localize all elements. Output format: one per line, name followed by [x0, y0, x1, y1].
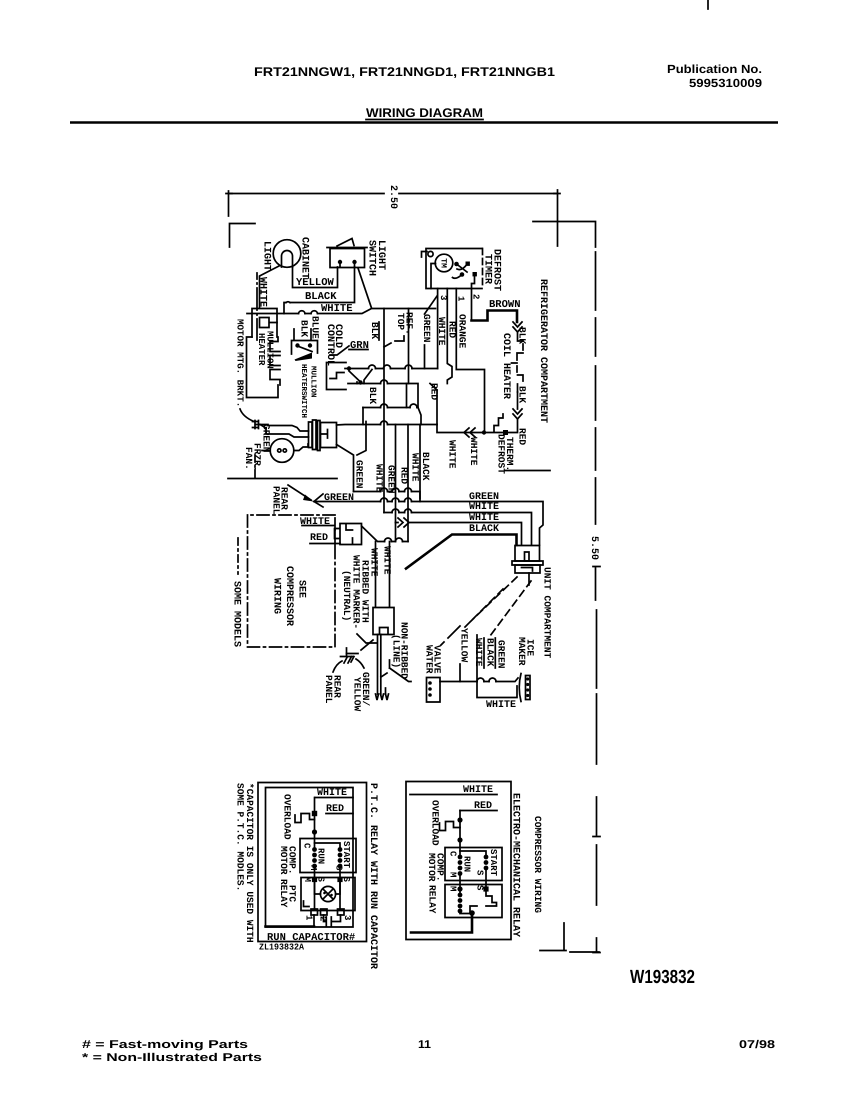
svg-text:RELAY: RELAY [427, 885, 438, 914]
svg-text:ELECTRO-MECHANICAL RELAY: ELECTRO-MECHANICAL RELAY [510, 793, 521, 937]
mullion heater top box inner [260, 318, 278, 328]
main lead [459, 811, 461, 857]
white bus bumps [299, 311, 318, 314]
wire fan to plug upper [260, 425, 309, 438]
bumps on 491.5 [381, 488, 412, 492]
rear panel leader arrow [288, 485, 311, 500]
svg-text:SOME P.T.C. MODLES.: SOME P.T.C. MODLES. [235, 783, 246, 891]
svg-text:WHITE: WHITE [486, 700, 516, 711]
svg-text:MAKER: MAKER [516, 637, 527, 666]
svg-text:S: S [316, 877, 326, 883]
svg-text:RED: RED [447, 321, 458, 338]
main lead [314, 798, 316, 850]
timer contact blades [453, 264, 468, 279]
L corner mark [304, 901, 310, 907]
bumps on 682 [477, 678, 496, 682]
svg-text:CABINET: CABINET [299, 237, 310, 279]
svg-text:* = Non-Illustrated Parts: * = Non-Illustrated Parts [82, 1052, 262, 1064]
svg-text:YELLOW: YELLOW [296, 277, 335, 289]
trunk vertical 406 lower [406, 384, 408, 408]
brown wire [472, 311, 518, 323]
green wire from timer pin3 [425, 296, 438, 369]
ground symbol [341, 648, 355, 663]
blk trunk wire [383, 309, 385, 513]
coil heater dashed element [512, 332, 524, 392]
cabinet light bulb [273, 240, 301, 268]
dimension 5.50 bottom corner [540, 923, 600, 953]
refrigerator compartment corner top-left [230, 224, 256, 248]
wire bulb left lead [260, 266, 280, 308]
svg-text:S: S [334, 865, 344, 871]
svg-text:ZL193832A: ZL193832A [259, 943, 305, 953]
svg-text:GREEN: GREEN [496, 640, 507, 669]
grn leader [330, 346, 368, 355]
mullion heater top box [252, 309, 277, 338]
stubs into connector [363, 390, 437, 425]
mullion heater element meander [247, 337, 281, 398]
svg-text:(LINE): (LINE) [391, 634, 402, 668]
mullion heater switch arm [295, 353, 313, 362]
terminal chevrons on brown wire [513, 322, 522, 332]
svg-text:BLK: BLK [367, 387, 378, 404]
svg-text:SWITCH: SWITCH [299, 391, 308, 418]
svg-text:FAN.: FAN. [243, 447, 254, 470]
dimension 2.50 left end [226, 191, 232, 216]
svg-text:TM: TM [439, 258, 448, 268]
compartment divider line right [505, 470, 550, 472]
bumps on 407 bus [381, 404, 418, 408]
vertical white drop [477, 635, 517, 698]
svg-text:Publication No.: Publication No. [667, 62, 762, 76]
svg-text:GREEN: GREEN [354, 460, 365, 489]
red wire [326, 813, 353, 815]
svg-text:(NEUTRAL): (NEUTRAL) [341, 570, 352, 621]
wire stubs into heater switch [294, 329, 311, 340]
ptc relay box [301, 878, 355, 911]
relay box [445, 885, 502, 918]
svg-text:SOME MODELS: SOME MODELS [231, 581, 242, 647]
white wire [410, 794, 497, 796]
dash on line wire [381, 673, 387, 677]
bumps on 541.5 [385, 538, 403, 542]
zigzag drop from 368 bus [364, 370, 372, 384]
svg-text:07/98: 07/98 [739, 1039, 775, 1051]
svg-text:WHITE: WHITE [468, 437, 479, 466]
svg-text:YELLOW: YELLOW [352, 677, 363, 712]
svg-text:M: M [308, 865, 318, 870]
svg-text:WHITE: WHITE [473, 638, 484, 667]
svg-text:MOTOR MTG. BRKT.: MOTOR MTG. BRKT. [235, 319, 246, 407]
svg-text:GREEN: GREEN [421, 314, 432, 343]
svg-text:MULLION: MULLION [309, 366, 318, 398]
svg-text:# = Fast-moving Parts: # = Fast-moving Parts [82, 1039, 248, 1051]
svg-text:BROWN: BROWN [489, 299, 521, 311]
svg-text:WHITE: WHITE [257, 277, 268, 307]
trunk 407 bus [363, 407, 418, 409]
green bus wire [314, 502, 543, 546]
freezer fan motor circle [270, 439, 294, 463]
inner box [266, 788, 354, 928]
svg-text:C: C [448, 851, 458, 857]
left border dash-dot marks [256, 273, 258, 340]
header rule [70, 121, 778, 124]
comp motor box [300, 839, 356, 873]
svg-text:WIRING DIAGRAM: WIRING DIAGRAM [366, 106, 483, 120]
relay coil dots [458, 893, 463, 898]
svg-text:WHITE: WHITE [382, 546, 393, 575]
svg-text:RED: RED [517, 428, 528, 445]
timer wire from TM down [431, 264, 436, 289]
white wire [315, 797, 353, 799]
svg-text:M: M [448, 886, 458, 891]
power cord block [373, 608, 394, 635]
svg-text:M: M [448, 872, 458, 877]
svg-text:S: S [475, 870, 485, 876]
start top wire [460, 851, 486, 855]
svg-text:BLACK: BLACK [305, 291, 337, 303]
svg-text:FRT21NNGW1, FRT21NNGD1, FRT21N: FRT21NNGW1, FRT21NNGD1, FRT21NNGB1 [254, 65, 555, 79]
title underline [366, 119, 483, 121]
connector plug inner tick [322, 430, 328, 439]
dashed leads to ice maker [465, 577, 531, 636]
chevrons lower [513, 409, 522, 419]
winding leads to ptc box [315, 866, 341, 910]
wire plug lower fanout [337, 445, 354, 492]
svg-text:WHITE: WHITE [447, 440, 458, 469]
S contact step [460, 891, 497, 914]
wire white trunk from timer [447, 289, 452, 384]
wire green label to fan [262, 444, 308, 451]
svg-text:2: 2 [471, 294, 481, 299]
bumps on green bus [381, 498, 412, 502]
compressor white wire [302, 525, 334, 527]
wire heater to defrost therm bus [437, 392, 518, 433]
svg-text:BLACK: BLACK [485, 638, 496, 667]
light switch lever [327, 239, 367, 248]
svg-text:S: S [475, 885, 485, 891]
overload [440, 822, 461, 831]
marker leader [357, 634, 377, 643]
leads to relay box [460, 868, 486, 893]
svg-text:COMPRESSOR WIRING: COMPRESSOR WIRING [532, 816, 543, 913]
power cord double line [378, 635, 381, 695]
defrost therm junction dots [482, 430, 486, 434]
wire black: switch to bus [284, 267, 355, 314]
svg-text:1: 1 [304, 915, 314, 921]
defrost timer motor TM [435, 254, 453, 272]
svg-text:WHITE: WHITE [469, 502, 499, 513]
svg-text:S: S [341, 877, 351, 883]
start top wire [315, 843, 341, 847]
svg-text:ORANGE: ORANGE [457, 314, 468, 349]
svg-text:THERM.: THERM. [504, 437, 515, 471]
svg-text:HEATER: HEATER [256, 333, 266, 366]
connector plug right body [321, 423, 337, 448]
svg-text:COIL HEATER: COIL HEATER [500, 333, 511, 399]
wire orange trunk [437, 289, 439, 369]
refrigerator compartment corner top-right [533, 222, 596, 248]
white2 bus chevrons [398, 518, 409, 527]
svg-text:RUN: RUN [462, 856, 472, 872]
mullion heater switch box [292, 341, 318, 355]
connector plug body left bar [309, 422, 313, 448]
fan inline connector [253, 421, 261, 429]
white1 bus wire [384, 513, 532, 546]
wire cold control bottom bus [348, 384, 437, 425]
dimension 5.50 vertical line [595, 252, 597, 524]
thick bottom wire [411, 913, 472, 933]
svg-text:OVERLOAD: OVERLOAD [430, 800, 441, 846]
run winding [458, 855, 463, 860]
wire: light switch diagonal to trunk [358, 268, 372, 308]
timer pin2 wire [472, 276, 475, 321]
svg-text:SWITCH: SWITCH [366, 240, 377, 276]
svg-text:5995310009: 5995310009 [689, 76, 762, 90]
svg-text:TOP: TOP [395, 313, 406, 330]
dash-dot boundary bits [441, 626, 460, 645]
fan motor dots [278, 449, 281, 452]
trunk vertical 408 upper [408, 309, 410, 384]
page registration tick top [707, 0, 709, 9]
compartment divider line left [228, 478, 337, 480]
comp motor box [445, 848, 502, 881]
svg-text:RELAY: RELAY [278, 879, 289, 908]
white2 bus wire [396, 523, 522, 546]
run winding dots [312, 847, 317, 852]
svg-text:LIGHT: LIGHT [261, 241, 272, 271]
cold control contacts [347, 366, 351, 370]
svg-text:3: 3 [342, 915, 352, 920]
svg-text:BLK: BLK [299, 320, 310, 337]
chevrons on therm bus [464, 428, 475, 437]
cord prongs [376, 694, 389, 700]
svg-text:P.T.C. RELAY WITH RUN CAPACITO: P.T.C. RELAY WITH RUN CAPACITOR [367, 783, 378, 969]
neutral riser wires [376, 542, 390, 608]
outer box [258, 783, 367, 942]
pins below [311, 909, 318, 915]
line wire diagonal to water valve [390, 660, 412, 682]
wire yellow: bulb to switch [293, 267, 338, 288]
svg-text:2.50: 2.50 [387, 185, 398, 209]
svg-text:C: C [302, 843, 312, 849]
some models dashed sample [237, 538, 239, 574]
bump on 383 bus [381, 380, 388, 384]
water valve body [427, 678, 441, 703]
wire cold control to red bus [345, 368, 438, 370]
ground to cord wire [347, 640, 374, 654]
svg-text:REFRIGERATOR COMPARTMENT: REFRIGERATOR COMPARTMENT [537, 279, 548, 423]
svg-text:RUN: RUN [316, 848, 326, 864]
black wire bump over bulb lead [286, 301, 290, 304]
cabinet light filament [282, 251, 293, 268]
light switch terminals [338, 260, 342, 264]
dimension 5.50 small ticks [593, 567, 600, 837]
svg-text:PANEL: PANEL [271, 486, 282, 515]
svg-text:BLACK: BLACK [420, 452, 431, 481]
mullion heater switch contacts [295, 343, 299, 347]
defrost timer pivot [428, 251, 433, 256]
defrost timer contacts [454, 262, 459, 267]
green bus arrowhead outline [314, 494, 323, 507]
green feeder line 491.5 [354, 492, 421, 502]
svg-text:MOTOR: MOTOR [426, 853, 437, 882]
red wire [460, 810, 497, 812]
svg-text:11: 11 [418, 1039, 431, 1051]
yellow leader wire [459, 664, 461, 682]
ptc internal wires [315, 880, 341, 895]
dimension 2.50 line [229, 193, 556, 195]
outer box [406, 782, 511, 940]
compressor connector plug [335, 524, 362, 545]
trunk vertical 366 [357, 422, 366, 456]
see compressor wiring dashed box [248, 515, 336, 647]
connector plug tall bars [313, 420, 321, 451]
wire red trunk from pin 1 [456, 289, 484, 433]
svg-text:OVERLOAD: OVERLOAD [282, 794, 293, 840]
svg-text:SEE: SEE [296, 580, 307, 598]
black bus wire [406, 535, 517, 569]
svg-text:5.50: 5.50 [588, 536, 599, 560]
defrost timer dashed box [426, 249, 482, 289]
svg-text:UNIT COMPARTMENT: UNIT COMPARTMENT [542, 567, 553, 659]
svg-text:PANEL: PANEL [323, 675, 334, 704]
white bus wire [247, 309, 436, 314]
wire plug to 424 bus [337, 424, 438, 427]
light switch box [330, 249, 365, 268]
svg-text:CONTROL: CONTROL [324, 324, 335, 366]
svg-text:VALVE: VALVE [432, 645, 443, 674]
svg-text:RED: RED [310, 533, 328, 544]
svg-text:WHITE: WHITE [410, 453, 421, 482]
bumps on 368 bus [369, 365, 413, 369]
compressor red wire [310, 543, 340, 545]
connector lower stub [528, 573, 530, 585]
wire plug to white2 riser [362, 523, 409, 542]
overload [295, 814, 315, 823]
svg-text:TIMER: TIMER [482, 254, 493, 284]
svg-text:HEATER: HEATER [299, 364, 307, 392]
mullion heater switch blade [298, 346, 313, 352]
dimension 2.50 right end [554, 190, 560, 246]
defrost thermostat symbol [494, 414, 503, 432]
svg-text:YELLOW: YELLOW [459, 628, 470, 663]
rear panel leader [333, 661, 342, 672]
cold control body [327, 363, 347, 390]
bump on 424 bus [381, 421, 388, 425]
green yellow leader [356, 659, 364, 668]
svg-text:START: START [488, 849, 498, 877]
svg-text:WIRING: WIRING [271, 578, 282, 614]
svg-text:W193832: W193832 [630, 967, 695, 988]
svg-text:COMPRESSOR: COMPRESSOR [283, 566, 294, 626]
motor mtg brkt leader curve [240, 409, 254, 422]
water valve wire to bus 682 [440, 678, 518, 682]
ptc element circle [320, 886, 335, 901]
svg-text:MOTOR: MOTOR [278, 846, 289, 875]
svg-text:M: M [302, 877, 312, 882]
bottom thick wire [266, 925, 315, 928]
run capacitor wiring [314, 915, 341, 927]
trunk verticals [395, 425, 397, 523]
ice maker connector [519, 674, 530, 702]
ref top leader [384, 336, 404, 347]
